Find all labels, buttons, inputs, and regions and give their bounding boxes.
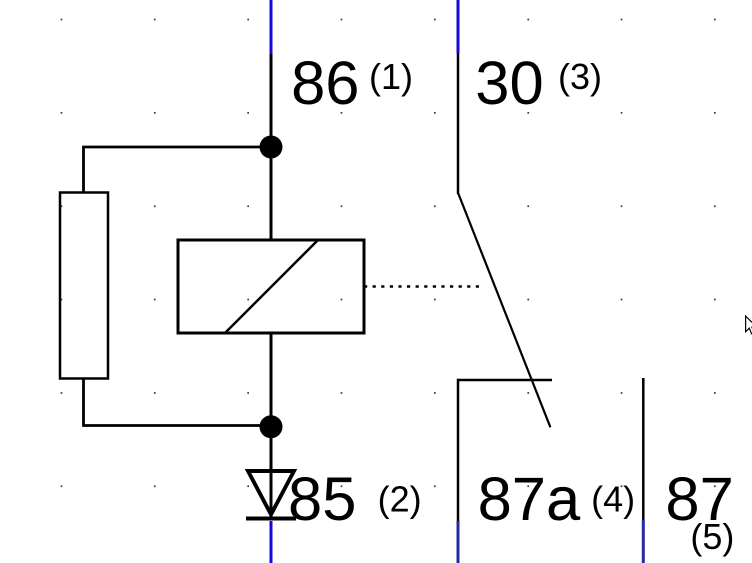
- svg-text:87a: 87a: [478, 465, 581, 534]
- svg-text:(4): (4): [591, 479, 635, 520]
- svg-text:30: 30: [475, 49, 543, 118]
- svg-text:(1): (1): [369, 56, 413, 97]
- svg-text:(5): (5): [690, 516, 734, 557]
- svg-text:(2): (2): [378, 479, 422, 520]
- svg-text:86: 86: [291, 49, 359, 118]
- svg-text:85: 85: [288, 465, 356, 534]
- svg-text:(3): (3): [558, 56, 602, 97]
